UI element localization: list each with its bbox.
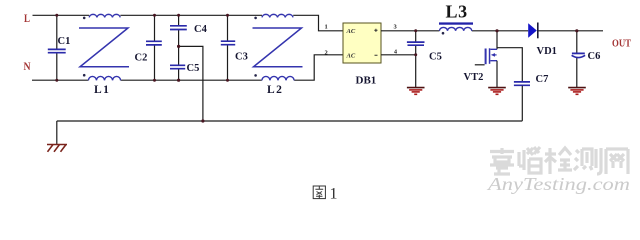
- svg-text:C6: C6: [588, 51, 601, 62]
- wire gate lead: [475, 64, 485, 66]
- wire bridge negative pin 4: [381, 54, 416, 56]
- svg-text:C3: C3: [235, 52, 248, 63]
- svg-text:DB1: DB1: [356, 75, 377, 87]
- svg-text:C1: C1: [58, 36, 71, 47]
- wire VT2 drain tap: [496, 31, 498, 50]
- bridge rectifier DB1: [343, 23, 381, 87]
- ground (VT2): [488, 88, 506, 95]
- watermark CJK 嘉峪检测网: [490, 147, 628, 174]
- wire N bottom rail: [32, 55, 343, 80]
- capacitor C1: [48, 15, 71, 80]
- capacitor C6: [572, 31, 601, 88]
- transistor VT2 (MOSFET): [464, 48, 498, 83]
- capacitor C4: [170, 15, 208, 46]
- capacitor C5 (after bridge): [407, 31, 442, 88]
- inductor L2 common-mode choke: [253, 14, 303, 96]
- svg-text:1: 1: [325, 24, 328, 31]
- svg-text:AnyTesting.com: AnyTesting.com: [487, 174, 630, 194]
- svg-text:L3: L3: [446, 2, 468, 22]
- wire drain node to C7: [497, 48, 522, 82]
- 峪: [519, 147, 541, 173]
- svg-text:C5: C5: [187, 63, 200, 74]
- svg-text:N: N: [24, 60, 31, 73]
- capacitor C7: [514, 74, 548, 121]
- svg-text:VD1: VD1: [537, 46, 557, 57]
- diode VD1: [528, 23, 557, 57]
- svg-text:3: 3: [394, 23, 398, 30]
- inductor L3: [439, 2, 473, 35]
- svg-text:1: 1: [330, 185, 338, 202]
- wire L top rail: [33, 15, 344, 30]
- 检: [545, 148, 572, 174]
- svg-text:VT2: VT2: [464, 72, 484, 83]
- earth ground (left): [47, 145, 67, 152]
- caption 图 1: [313, 186, 325, 199]
- svg-text:AC: AC: [346, 52, 356, 59]
- svg-text:C2: C2: [135, 53, 148, 64]
- svg-text:AC: AC: [346, 28, 356, 35]
- 网: [606, 149, 628, 174]
- wire source to ground: [496, 61, 498, 88]
- svg-text:C4: C4: [194, 24, 208, 35]
- 测: [574, 148, 601, 174]
- svg-text:L1: L1: [94, 84, 110, 96]
- ground (C6): [568, 88, 586, 95]
- svg-text:L: L: [24, 13, 30, 25]
- ground (C5): [407, 88, 425, 95]
- svg-text:OUT: OUT: [612, 37, 632, 49]
- wire bus to earth: [56, 121, 58, 144]
- wire DC rail after bridge: [381, 30, 603, 32]
- 嘉: [490, 148, 514, 174]
- svg-text:L2: L2: [267, 84, 283, 96]
- capacitor C5 (filter): [170, 46, 199, 80]
- capacitor C2: [135, 15, 162, 80]
- svg-text:C5: C5: [429, 51, 442, 62]
- wire Y-cap junction to ground bus: [179, 46, 203, 121]
- inductor L1 common-mode choke: [79, 14, 129, 96]
- svg-text:2: 2: [325, 50, 328, 57]
- svg-text:C7: C7: [536, 74, 549, 85]
- capacitor C3: [221, 15, 248, 80]
- wire ground bus: [57, 120, 523, 122]
